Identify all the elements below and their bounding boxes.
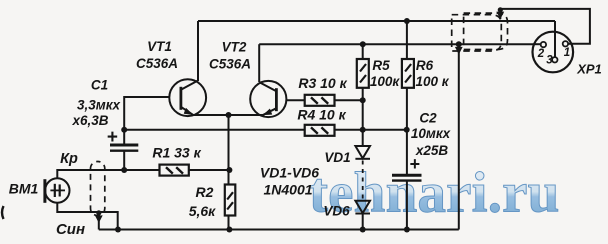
capacitor C1 <box>110 145 138 151</box>
resistor R3 <box>305 95 335 106</box>
svg-text:Син: Син <box>56 221 85 238</box>
wire pin3 drop <box>554 21 556 57</box>
svg-text:100к: 100к <box>370 74 401 89</box>
wire bottom rail <box>99 229 459 231</box>
shield arrow mic <box>95 215 103 223</box>
svg-text:VD6: VD6 <box>323 204 350 219</box>
svg-text:Кр: Кр <box>60 151 78 167</box>
wire shield to pin1 <box>500 9 590 44</box>
shield arrow XP1 bottom <box>455 47 463 55</box>
shield capsule mic <box>91 162 105 216</box>
svg-text:1N4001: 1N4001 <box>263 182 312 198</box>
svg-text:VT1: VT1 <box>147 39 172 54</box>
wire collector rail to XP1 pin2 <box>259 43 534 45</box>
diode VD6 <box>355 201 370 214</box>
wire emitter link <box>191 114 265 116</box>
shield capsule XP1 a <box>452 15 502 51</box>
capacitor C2 <box>392 175 422 180</box>
wire mic shield stub <box>98 212 100 230</box>
shield capsule XP1 b <box>464 13 508 49</box>
wire VT1 base <box>124 97 169 130</box>
diode VD1 <box>355 146 370 159</box>
wire top rail <box>198 20 555 22</box>
svg-text:R6: R6 <box>416 58 434 73</box>
svg-text:С1: С1 <box>91 78 108 93</box>
svg-text:1: 1 <box>564 47 570 59</box>
wire emitter down <box>228 115 230 230</box>
wire pin2 inside <box>534 43 541 45</box>
wire VT1 collector <box>197 21 199 81</box>
edge artifact <box>2 206 4 219</box>
wire mic top Kr <box>57 170 229 178</box>
svg-text:С2: С2 <box>419 111 437 126</box>
svg-text:R1 33 к: R1 33 к <box>152 145 201 161</box>
wire C1 top lead <box>123 130 125 145</box>
svg-text:5,6к: 5,6к <box>189 203 216 219</box>
svg-text:+: + <box>106 127 117 148</box>
resistor R2 <box>225 185 236 216</box>
resistor R1 <box>160 165 189 176</box>
svg-text:R3 10 к: R3 10 к <box>298 75 347 91</box>
svg-text:2: 2 <box>537 48 545 60</box>
wire VT2 base to R3 <box>286 99 305 101</box>
svg-text:ХР1: ХР1 <box>576 62 602 77</box>
resistor R6 <box>402 59 414 88</box>
svg-text:3: 3 <box>546 55 553 67</box>
wire R6 branch <box>406 21 408 175</box>
shield arrow XP1 top <box>496 12 504 20</box>
transistor VT2 <box>250 81 286 117</box>
wire diode chain top <box>362 44 364 146</box>
svg-text:х6,3В: х6,3В <box>71 113 108 128</box>
microphone BM1 <box>45 178 70 203</box>
svg-text:ВМ1: ВМ1 <box>9 181 39 197</box>
wire C1 bottom lead <box>123 151 125 170</box>
connector XP1 <box>533 32 574 73</box>
svg-text:100 к: 100 к <box>415 74 449 89</box>
svg-text:VT2: VT2 <box>222 40 247 55</box>
svg-text:3,3мкх: 3,3мкх <box>77 98 121 113</box>
svg-text:С536А: С536А <box>209 57 251 72</box>
svg-text:С536А: С536А <box>136 56 178 71</box>
dashed VD2-VD5 <box>362 161 364 200</box>
svg-text:R2: R2 <box>196 184 214 200</box>
svg-text:R4 10 к: R4 10 к <box>297 107 346 123</box>
wire VT2 collector <box>258 44 260 82</box>
svg-text:VD1: VD1 <box>324 150 350 165</box>
wire ground vertical <box>458 44 460 229</box>
wire diode chain bottom <box>362 213 364 229</box>
wire mic bottom Sin <box>57 203 117 230</box>
svg-text:10мкх: 10мкх <box>411 126 451 141</box>
wire R3 right <box>335 99 363 101</box>
resistor R4 <box>305 125 335 136</box>
svg-text:R5: R5 <box>372 58 390 73</box>
svg-text:VD1-VD6: VD1-VD6 <box>260 165 319 181</box>
wire base R4 line <box>124 129 407 131</box>
wire C2 bottom lead <box>406 181 408 230</box>
svg-text:+: + <box>409 154 420 174</box>
resistor R5 <box>357 59 369 88</box>
svg-text:х25В: х25В <box>415 143 449 158</box>
transistor VT1 <box>169 79 206 116</box>
